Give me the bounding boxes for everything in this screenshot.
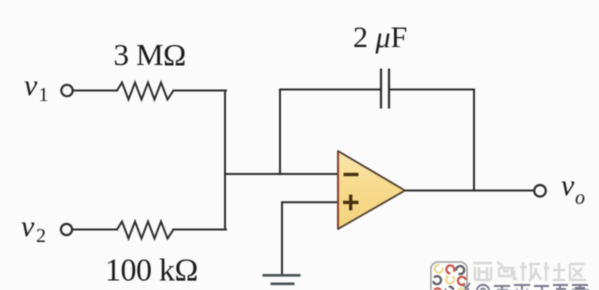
svg-text:v: v [24, 69, 38, 102]
svg-text:100 kΩ: 100 kΩ [105, 252, 198, 288]
svg-text:2 μF: 2 μF [353, 21, 407, 54]
svg-text:v: v [561, 169, 575, 202]
svg-text:o: o [575, 187, 585, 209]
svg-text:2: 2 [36, 225, 46, 247]
svg-text:1: 1 [39, 84, 49, 106]
svg-text:v: v [21, 210, 35, 243]
svg-text:3 MΩ: 3 MΩ [114, 37, 186, 72]
